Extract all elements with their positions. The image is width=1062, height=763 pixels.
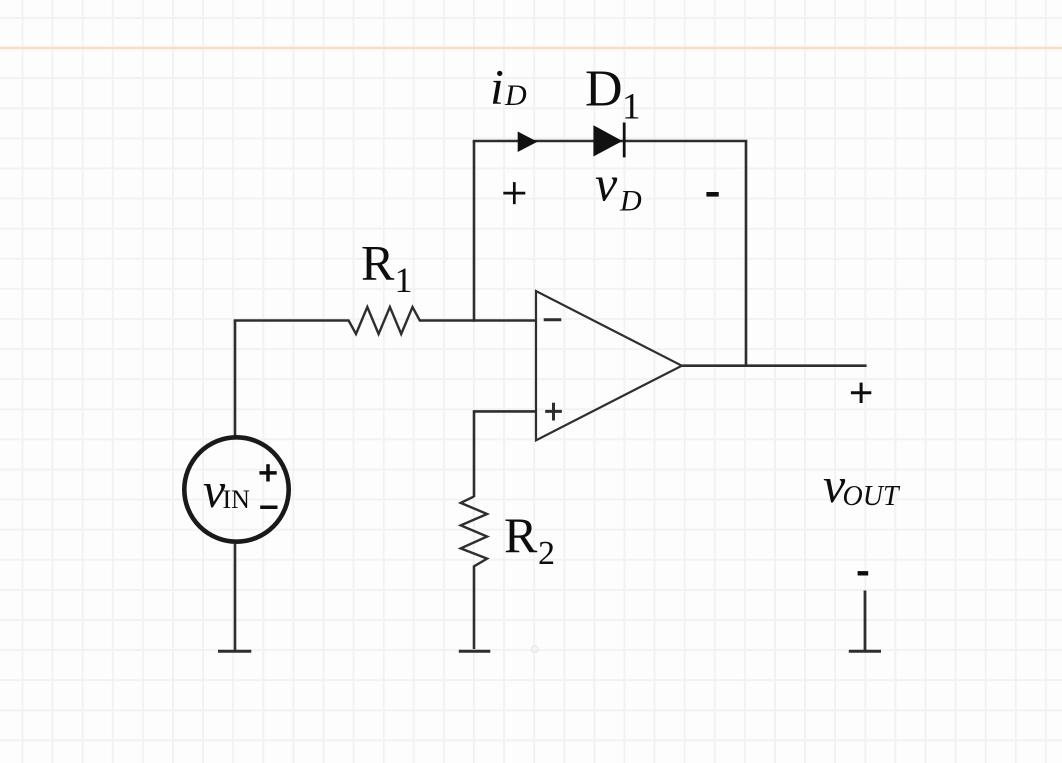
- minus sign inside vIN: [260, 506, 277, 510]
- minus sign vOUT: [858, 571, 869, 575]
- svg-text:1: 1: [395, 260, 413, 300]
- op-amp U1: [536, 291, 682, 440]
- wire: op-amp output horizontal: [682, 364, 867, 367]
- wire: feedback left vertical: [473, 141, 476, 322]
- wire: R1 to op-amp inverting input: [419, 319, 536, 322]
- wire: R2 top vertical: [473, 410, 476, 497]
- orange divider line: [0, 47, 1062, 50]
- svg-text:R: R: [361, 235, 395, 291]
- wire: vin to R1 horizontal: [234, 319, 350, 322]
- svg-text:R: R: [504, 507, 538, 563]
- wire: vOUT ground stub: [864, 591, 867, 651]
- svg-text:1: 1: [622, 87, 641, 128]
- diode D1 cathode bar: [623, 123, 626, 158]
- ground bar vOUT: [849, 650, 881, 653]
- svg-text:IN: IN: [223, 485, 251, 514]
- wire: vin bottom vertical: [234, 543, 237, 650]
- svg-text:i: i: [490, 59, 504, 115]
- svg-text:D: D: [619, 185, 642, 218]
- resistor R1: [349, 307, 420, 334]
- wire: noninverting input horizontal: [474, 410, 536, 413]
- svg-text:2: 2: [538, 535, 555, 572]
- resistor R2: [461, 496, 487, 566]
- ground bar R2: [459, 650, 491, 653]
- minus sign vD cathode: [706, 192, 718, 197]
- plus sign vOUT: [851, 383, 871, 403]
- ground bar vIN: [218, 650, 251, 653]
- wire: feedback top horizontal: [473, 140, 748, 143]
- wire: R2 bottom vertical: [473, 566, 476, 649]
- current arrow iD: [518, 132, 538, 153]
- wire: feedback right vertical: [745, 141, 748, 367]
- plus sign inside vIN: [259, 464, 276, 481]
- svg-text:D: D: [504, 79, 527, 112]
- diode D1: [593, 125, 622, 156]
- svg-text:D: D: [585, 61, 623, 118]
- svg-text:OUT: OUT: [843, 481, 901, 512]
- wire: vin top vertical: [234, 321, 237, 437]
- plus sign vD anode: [503, 182, 525, 204]
- op-amp minus input sign: [544, 318, 562, 321]
- source vIN circle: [184, 437, 288, 541]
- faint ring artifact: [532, 646, 538, 652]
- svg-text:v: v: [595, 156, 618, 212]
- op-amp plus input sign: [545, 403, 562, 421]
